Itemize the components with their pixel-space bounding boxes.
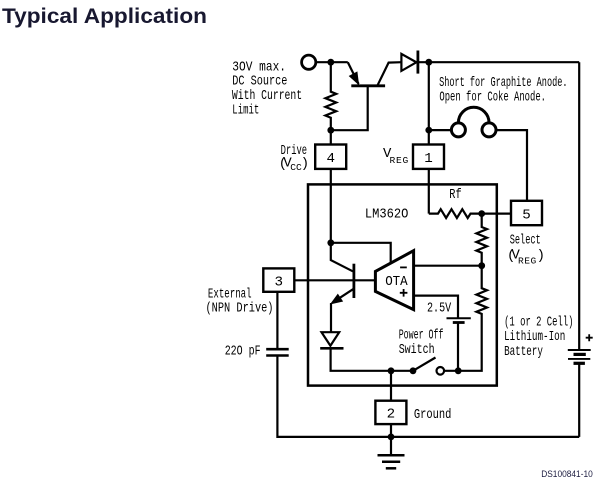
label Vreg [383,146,409,166]
pin box 4 [315,145,346,169]
resistor divider bottom [444,266,487,371]
pin box 5 [511,201,542,225]
transistor Q1 PNP emitter lead [348,62,359,84]
svg-text:(1 or 2 Cell): (1 or 2 Cell) [504,314,573,330]
pin box 1 [413,145,444,169]
OTA plus sign [400,289,408,297]
wire right jumper circle to box5 [497,130,527,201]
battery B1 plates [568,350,591,363]
transistor Q1 emitter arrowhead [350,73,358,84]
transistor Q2 emitter lead [333,289,354,303]
transistor Q2 emitter arrowhead [332,295,343,304]
wire Rf node to box5 [482,213,511,215]
node junction at jumper [425,127,432,134]
wire box4 to IC interior node [330,169,332,243]
wire capacitor down to bottom rail [277,356,579,437]
wire battery bottom to rail [578,363,580,437]
label Select (Vreg) [507,233,545,267]
label External (NPN Drive) [206,287,274,317]
label Drive (Vcc) [279,143,309,173]
svg-text:OTA: OTA [385,274,408,290]
svg-text:4: 4 [326,151,335,167]
svg-text:5: 5 [522,207,531,223]
ground symbol [378,455,405,468]
wire pin2 drop [390,371,392,401]
svg-text:DS100841-10: DS100841-10 [541,469,593,479]
wire diode node down to jumper node [428,62,430,144]
capacitor 220pF bottom plate [266,354,289,357]
diode D1 [401,54,416,71]
battery plus sign [586,334,593,341]
node junction collector [327,239,334,246]
svg-text:2.5V: 2.5V [427,301,452,317]
resistor divider top [476,214,487,266]
svg-text:22O pF: 22O pF [225,343,261,359]
wire box3 down to capacitor [276,292,278,349]
svg-text:LM362O: LM362O [365,206,409,222]
node junction resistor bottom [327,127,334,134]
resistor current-limit [325,62,336,144]
label 30V max. DC Source With Current Limit [232,59,302,118]
diode D2 triangle [322,332,340,346]
wire jumper node to left jumper circle [429,129,451,131]
node junction 2.5V at rail [455,367,462,374]
svg-text:Ground: Ground [414,407,452,423]
transistor Q2 NPN collector lead [331,243,353,271]
transistor Q2 base bar [352,264,355,298]
jumper circle left [451,123,465,137]
wire OTA plus input [414,296,458,319]
svg-text:Limit: Limit [232,103,259,119]
wire 2.5V cell to rail [457,323,459,371]
svg-text:Open for Coke Anode.: Open for Coke Anode. [439,89,546,105]
IC box LM3620 [308,184,497,385]
svg-text:REG: REG [518,255,537,266]
svg-text:Rf: Rf [449,187,461,203]
diode D1 cathode bar [416,51,419,74]
input terminal circle [302,55,316,69]
node junction Rf right [478,210,485,217]
wire OTA minus input [414,265,482,267]
svg-text:2: 2 [387,407,396,423]
svg-text:): ) [301,156,309,172]
wire OTA supply from collector node [331,243,391,262]
svg-text:1: 1 [424,151,433,167]
node junction after diode [425,59,432,66]
resistor Rf [429,209,482,218]
svg-text:REG: REG [390,155,410,166]
jumper arc [458,107,489,122]
op-amp OTA trapezoid [375,251,413,310]
transistor Q1 collector lead [377,62,401,86]
wire diode to right rail [415,61,580,63]
svg-text:(NPN Drive): (NPN Drive) [206,301,274,317]
wire box1 down to Rf [428,169,430,214]
pin box 2 [375,401,406,424]
svg-text:Battery: Battery [504,344,543,360]
svg-text:): ) [537,248,545,264]
svg-text:Select: Select [510,233,541,249]
node switch pivot [410,367,417,374]
label Power Off Switch [399,328,444,358]
jumper circle right [482,123,496,137]
node junction on bottom rail [388,434,395,441]
reference 2.5V cell bottom plate [453,321,465,324]
wire right rail down to battery [578,62,580,350]
svg-text:Switch: Switch [399,342,435,358]
OTA minus sign [400,266,407,268]
node junction divider mid [478,262,485,269]
transistor Q1 base lead wire [331,86,368,130]
switch open contact circle [437,367,445,375]
node junction at top of resistor [327,59,334,66]
svg-text:Typical Application: Typical Application [2,5,207,28]
pin box 3 [263,268,294,291]
label Short for Graphite Anode / Open for Coke Anode [439,75,567,105]
diode D2 cathode bar [320,347,343,350]
node junction pin2 on rail [388,367,395,374]
wire emitter to LED [330,303,332,332]
wire input to PNP emitter [316,61,348,63]
svg-text:Lithium-Ion: Lithium-Ion [504,329,565,345]
wire LED to internal ground rail [331,348,414,371]
transistor Q1 base bar [351,84,385,87]
svg-text:3: 3 [275,274,284,290]
reference 2.5V cell top plate [447,317,471,319]
switch lever [413,358,436,371]
label (1 or 2 Cell) Lithium-Ion Battery [504,314,573,359]
capacitor 220pF top plate [266,348,289,351]
wire pin2 to ground rail [390,424,392,455]
wire pin3 to OTA through base [294,279,375,281]
